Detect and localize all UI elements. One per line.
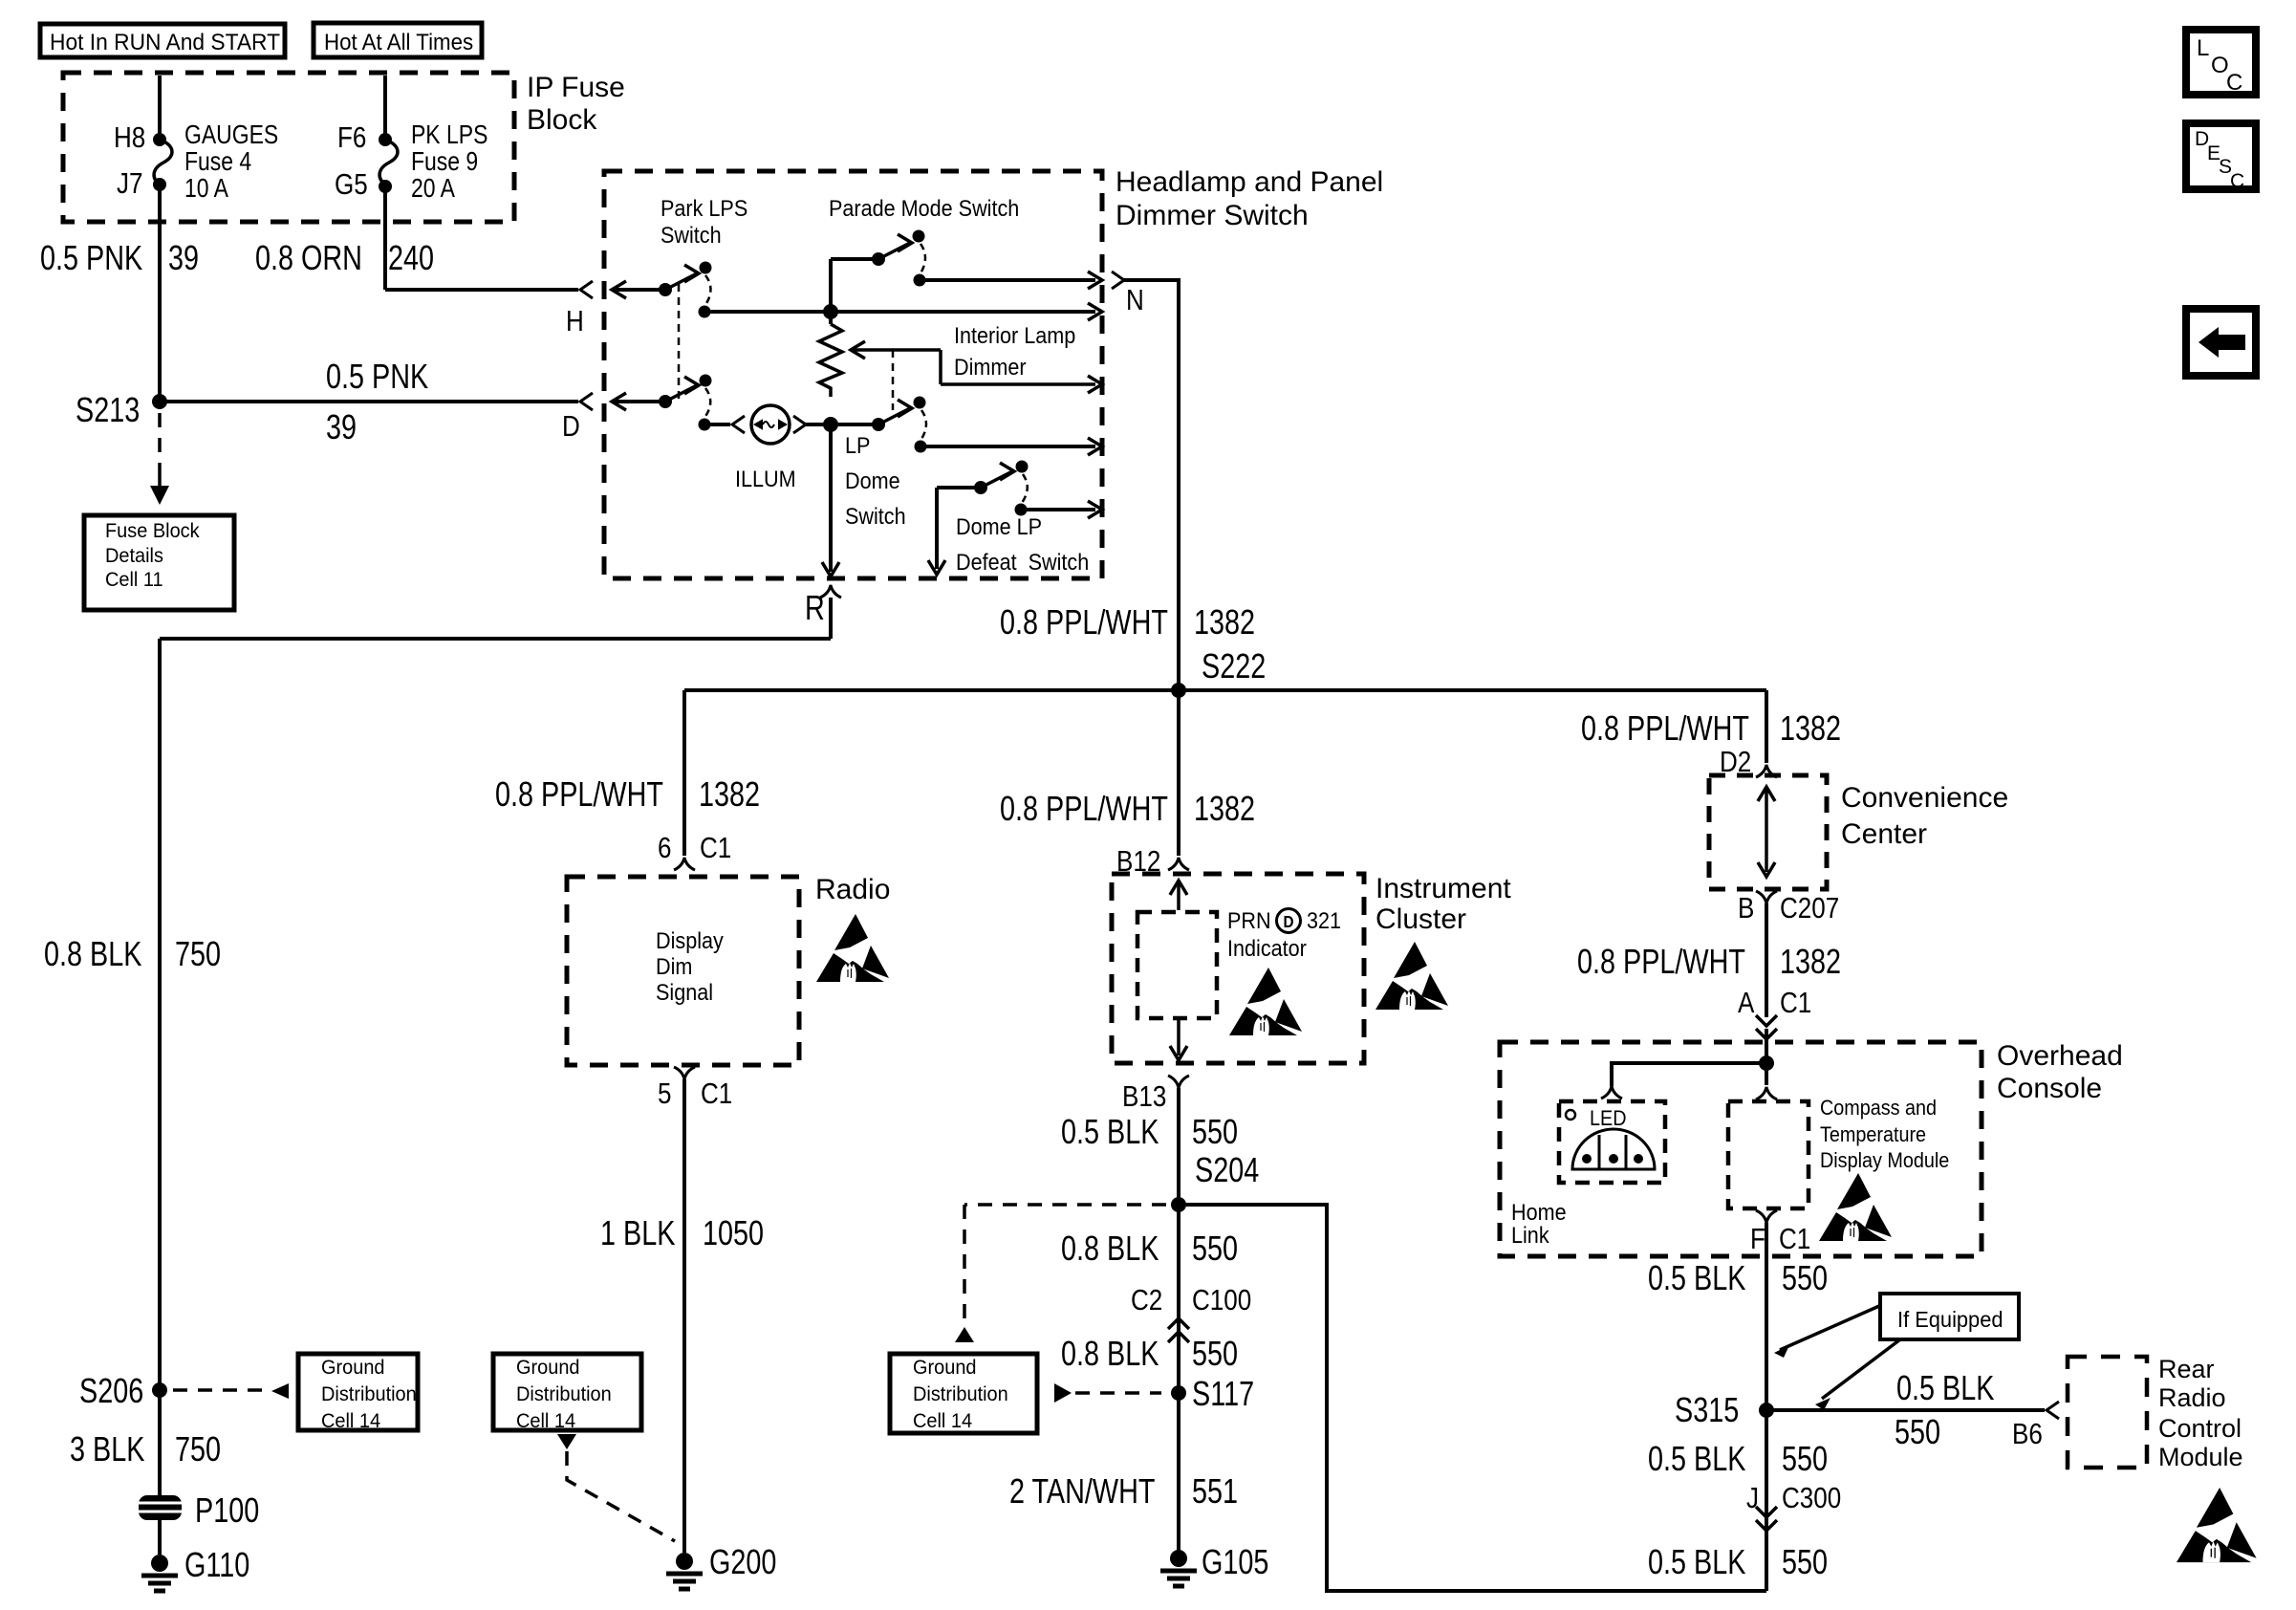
svg-text:Display: Display bbox=[656, 927, 724, 953]
svg-text:Details: Details bbox=[105, 545, 163, 568]
svg-text:Rear: Rear bbox=[2158, 1355, 2215, 1383]
svg-text:Convenience: Convenience bbox=[1841, 782, 2008, 814]
svg-text:Defeat Switch: Defeat Switch bbox=[956, 549, 1089, 575]
svg-text:C1: C1 bbox=[700, 832, 731, 865]
svg-text:1382: 1382 bbox=[699, 774, 760, 814]
svg-text:Display Module: Display Module bbox=[1820, 1149, 1949, 1172]
svg-text:550: 550 bbox=[1192, 1112, 1238, 1151]
svg-text:Switch: Switch bbox=[845, 503, 906, 529]
svg-text:C1: C1 bbox=[1779, 1223, 1810, 1256]
svg-text:0.8 ORN: 0.8 ORN bbox=[255, 238, 362, 277]
svg-text:L: L bbox=[2197, 35, 2209, 61]
svg-text:G5: G5 bbox=[335, 168, 368, 202]
svg-text:S213: S213 bbox=[76, 390, 140, 429]
svg-text:G110: G110 bbox=[184, 1545, 249, 1584]
svg-text:0.8 PPL/WHT: 0.8 PPL/WHT bbox=[1581, 708, 1749, 748]
svg-text:Dimmer Switch: Dimmer Switch bbox=[1116, 200, 1309, 231]
svg-text:Module: Module bbox=[2158, 1443, 2243, 1471]
svg-text:C1: C1 bbox=[701, 1077, 732, 1111]
svg-text:550: 550 bbox=[1192, 1334, 1238, 1373]
svg-text:Park LPS: Park LPS bbox=[661, 195, 747, 221]
svg-text:B: B bbox=[1738, 892, 1754, 925]
svg-text:Cell 14: Cell 14 bbox=[913, 1410, 972, 1433]
svg-text:Cell 11: Cell 11 bbox=[105, 569, 163, 592]
svg-text:1 BLK: 1 BLK bbox=[600, 1213, 676, 1252]
svg-text:Temperature: Temperature bbox=[1820, 1123, 1926, 1146]
svg-text:Headlamp and Panel: Headlamp and Panel bbox=[1116, 166, 1383, 198]
svg-text:Cell 14: Cell 14 bbox=[516, 1410, 575, 1433]
svg-text:Dimmer: Dimmer bbox=[954, 354, 1027, 380]
svg-text:S315: S315 bbox=[1675, 1390, 1739, 1429]
svg-text:6: 6 bbox=[658, 832, 671, 865]
svg-text:G105: G105 bbox=[1202, 1542, 1268, 1581]
svg-text:F: F bbox=[1750, 1223, 1765, 1256]
svg-text:S206: S206 bbox=[79, 1371, 143, 1410]
svg-text:Switch: Switch bbox=[661, 222, 722, 248]
svg-text:If Equipped: If Equipped bbox=[1897, 1307, 2004, 1332]
svg-text:0.5 BLK: 0.5 BLK bbox=[1061, 1112, 1159, 1151]
svg-text:0.8 PPL/WHT: 0.8 PPL/WHT bbox=[1000, 602, 1168, 642]
svg-text:LP: LP bbox=[845, 432, 870, 458]
svg-text:J7: J7 bbox=[117, 167, 142, 201]
svg-text:Ground: Ground bbox=[321, 1357, 385, 1380]
svg-text:Fuse 4: Fuse 4 bbox=[184, 147, 251, 177]
svg-text:0.8 PPL/WHT: 0.8 PPL/WHT bbox=[1577, 942, 1745, 981]
svg-text:R: R bbox=[805, 588, 825, 627]
svg-text:10 A: 10 A bbox=[184, 174, 229, 204]
svg-text:Center: Center bbox=[1841, 818, 1927, 850]
svg-text:2 TAN/WHT: 2 TAN/WHT bbox=[1009, 1471, 1156, 1511]
svg-text:Link: Link bbox=[1511, 1222, 1549, 1248]
svg-text:39: 39 bbox=[326, 407, 357, 446]
svg-text:551: 551 bbox=[1192, 1471, 1238, 1511]
svg-text:Cell 14: Cell 14 bbox=[321, 1410, 380, 1433]
svg-text:Parade Mode Switch: Parade Mode Switch bbox=[829, 195, 1019, 221]
svg-text:0.5 BLK: 0.5 BLK bbox=[1896, 1368, 1995, 1407]
svg-text:B13: B13 bbox=[1122, 1080, 1166, 1114]
svg-text:H: H bbox=[566, 305, 584, 338]
svg-text:0.5 BLK: 0.5 BLK bbox=[1648, 1439, 1746, 1478]
svg-text:PK LPS: PK LPS bbox=[411, 120, 487, 150]
svg-text:Cluster: Cluster bbox=[1375, 903, 1466, 935]
svg-text:ILLUM: ILLUM bbox=[735, 466, 796, 491]
svg-text:Dome: Dome bbox=[845, 468, 900, 493]
svg-text:1382: 1382 bbox=[1194, 602, 1255, 642]
svg-text:Fuse Block: Fuse Block bbox=[105, 520, 200, 543]
svg-text:Console: Console bbox=[1997, 1073, 2102, 1104]
svg-text:Distribution: Distribution bbox=[321, 1383, 417, 1406]
svg-text:Interior Lamp: Interior Lamp bbox=[954, 322, 1075, 348]
svg-text:Radio: Radio bbox=[2158, 1383, 2226, 1412]
svg-text:G200: G200 bbox=[709, 1542, 776, 1581]
svg-text:39: 39 bbox=[168, 238, 199, 277]
svg-text:LED: LED bbox=[1590, 1107, 1626, 1130]
svg-text:1050: 1050 bbox=[703, 1213, 764, 1252]
svg-text:Distribution: Distribution bbox=[516, 1383, 612, 1406]
svg-text:750: 750 bbox=[175, 934, 221, 973]
svg-text:S204: S204 bbox=[1195, 1150, 1259, 1189]
svg-text:D: D bbox=[1283, 912, 1293, 931]
svg-text:GAUGES: GAUGES bbox=[184, 120, 278, 150]
svg-text:Overhead: Overhead bbox=[1997, 1040, 2123, 1072]
svg-text:C1: C1 bbox=[1780, 987, 1811, 1020]
svg-text:Distribution: Distribution bbox=[913, 1383, 1008, 1406]
svg-text:1382: 1382 bbox=[1780, 708, 1841, 748]
svg-text:0.5 PNK: 0.5 PNK bbox=[326, 357, 428, 396]
svg-text:S222: S222 bbox=[1202, 646, 1266, 685]
svg-text:D: D bbox=[562, 410, 580, 444]
svg-text:550: 550 bbox=[1782, 1542, 1828, 1581]
svg-text:550: 550 bbox=[1192, 1229, 1238, 1268]
svg-text:3 BLK: 3 BLK bbox=[70, 1429, 145, 1469]
svg-text:Indicator: Indicator bbox=[1227, 935, 1307, 961]
svg-text:Radio: Radio bbox=[815, 874, 890, 905]
svg-text:240: 240 bbox=[388, 238, 434, 277]
svg-text:C207: C207 bbox=[1780, 892, 1839, 925]
svg-text:Hot In RUN And START: Hot In RUN And START bbox=[50, 29, 280, 54]
svg-text:PRN: PRN bbox=[1227, 907, 1271, 933]
svg-text:1382: 1382 bbox=[1194, 789, 1255, 828]
svg-text:C: C bbox=[2226, 70, 2242, 96]
svg-text:Ground: Ground bbox=[913, 1357, 977, 1380]
svg-text:0.8 PPL/WHT: 0.8 PPL/WHT bbox=[495, 774, 663, 814]
svg-text:A: A bbox=[1738, 987, 1755, 1020]
svg-text:550: 550 bbox=[1895, 1412, 1940, 1451]
svg-text:321: 321 bbox=[1307, 907, 1341, 933]
svg-text:C300: C300 bbox=[1782, 1482, 1841, 1515]
svg-text:C: C bbox=[2230, 170, 2244, 192]
svg-text:C2: C2 bbox=[1131, 1284, 1162, 1317]
svg-text:P100: P100 bbox=[195, 1490, 259, 1530]
svg-text:C100: C100 bbox=[1192, 1284, 1251, 1317]
svg-text:20 A: 20 A bbox=[411, 174, 456, 204]
svg-text:0.5 BLK: 0.5 BLK bbox=[1648, 1258, 1746, 1297]
svg-text:Ground: Ground bbox=[516, 1357, 580, 1380]
svg-text:0.8 BLK: 0.8 BLK bbox=[1061, 1334, 1159, 1373]
svg-text:Signal: Signal bbox=[656, 979, 713, 1005]
svg-text:Dim: Dim bbox=[656, 953, 692, 979]
svg-text:IP Fuse: IP Fuse bbox=[527, 72, 625, 103]
svg-text:750: 750 bbox=[175, 1429, 221, 1469]
svg-text:B6: B6 bbox=[2012, 1418, 2043, 1451]
svg-text:0.8 BLK: 0.8 BLK bbox=[44, 934, 142, 973]
svg-text:0.5 PNK: 0.5 PNK bbox=[40, 238, 142, 277]
svg-text:N: N bbox=[1126, 284, 1144, 317]
svg-text:F6: F6 bbox=[337, 121, 366, 155]
svg-text:H8: H8 bbox=[114, 121, 145, 155]
svg-text:1382: 1382 bbox=[1780, 942, 1841, 981]
svg-text:550: 550 bbox=[1782, 1439, 1828, 1478]
svg-text:Control: Control bbox=[2158, 1414, 2242, 1443]
svg-text:5: 5 bbox=[658, 1077, 671, 1111]
svg-text:0.5 BLK: 0.5 BLK bbox=[1648, 1542, 1746, 1581]
svg-text:Block: Block bbox=[527, 104, 597, 136]
svg-text:Instrument: Instrument bbox=[1375, 873, 1511, 904]
svg-text:Hot At All Times: Hot At All Times bbox=[324, 29, 473, 54]
svg-text:0.8 BLK: 0.8 BLK bbox=[1061, 1229, 1159, 1268]
svg-text:Compass and: Compass and bbox=[1820, 1097, 1937, 1120]
svg-text:0.8 PPL/WHT: 0.8 PPL/WHT bbox=[1000, 789, 1168, 828]
svg-text:Fuse 9: Fuse 9 bbox=[411, 147, 478, 177]
svg-text:Dome LP: Dome LP bbox=[956, 513, 1042, 539]
svg-text:S117: S117 bbox=[1192, 1374, 1254, 1413]
svg-text:550: 550 bbox=[1782, 1258, 1828, 1297]
